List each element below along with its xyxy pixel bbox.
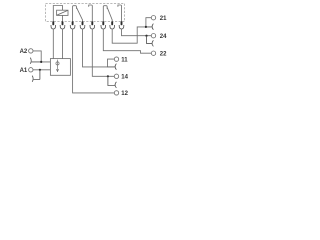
svg-text:A2: A2 bbox=[20, 49, 28, 55]
junction A2 bbox=[40, 61, 42, 63]
plug pin P8 bbox=[121, 21, 123, 25]
plug pin P2 bbox=[62, 21, 64, 25]
socket S5 bbox=[90, 25, 95, 29]
socket S4 bbox=[80, 25, 85, 29]
terminal A2 circle bbox=[29, 49, 33, 53]
svg-text:A1: A1 bbox=[20, 68, 28, 74]
wire pin5 to terminal 14 bbox=[92, 29, 114, 76]
plug pin P1 bbox=[52, 21, 54, 25]
contact K2 NO leg pin8 bbox=[118, 5, 122, 22]
LED polarity symbol U1 bbox=[56, 60, 59, 72]
svg-text:11: 11 bbox=[121, 57, 128, 63]
contact K1 NC leg pin3 bbox=[73, 6, 77, 22]
junction 24 bbox=[145, 35, 147, 37]
svg-text:12: 12 bbox=[121, 91, 128, 97]
contact K2 NC leg pin6 bbox=[103, 6, 107, 22]
socket S2 bbox=[60, 25, 65, 29]
wire A2 to box bbox=[33, 51, 51, 62]
bracket 21 second clamp bbox=[146, 24, 154, 30]
plug pin P4 bbox=[82, 21, 84, 25]
bracket A1 second clamp bbox=[32, 70, 40, 82]
wire pin2 to input box bbox=[62, 29, 64, 59]
plug pin P7 bbox=[111, 21, 113, 25]
socket S8 bbox=[119, 25, 124, 29]
wire pin7 to terminal 21 bbox=[112, 18, 151, 44]
wire pin1 to input box bbox=[52, 29, 54, 59]
bracket A2 second clamp bbox=[30, 58, 41, 64]
wire pin4 to terminal 11 bbox=[83, 29, 115, 67]
bracket 11 second clamp bbox=[108, 64, 117, 70]
junction 14 bbox=[107, 75, 109, 77]
plug pin P6 bbox=[102, 21, 104, 25]
terminal 22 circle bbox=[151, 51, 155, 55]
relay unit dashed box bbox=[46, 3, 125, 21]
junction A1 bbox=[39, 69, 41, 71]
terminal 24 circle bbox=[151, 34, 155, 38]
plug pin P3 bbox=[72, 21, 74, 25]
plug pin P5 bbox=[91, 21, 93, 25]
socket S7 bbox=[110, 25, 115, 29]
wire pin3 to terminal 12 bbox=[73, 29, 115, 93]
junction 21 bbox=[145, 26, 147, 28]
wire coil feed from pin1 bbox=[53, 6, 62, 22]
input module box bbox=[50, 59, 70, 76]
bracket 14 second clamp bbox=[108, 76, 117, 88]
contact K1 pole stub pin4 bbox=[82, 20, 84, 22]
terminal 21 circle bbox=[151, 16, 155, 20]
terminal 14 circle bbox=[114, 74, 118, 78]
socket S3 bbox=[70, 25, 75, 29]
svg-text:14: 14 bbox=[121, 75, 128, 81]
wire coil to pin2 bbox=[62, 15, 64, 21]
svg-text:21: 21 bbox=[160, 16, 167, 22]
socket S1 bbox=[51, 25, 56, 29]
contact K1 NO leg pin5 bbox=[89, 5, 93, 22]
wire pin8 to terminal 24 bbox=[122, 29, 152, 36]
wire pin6 to terminal 22 bbox=[103, 29, 151, 53]
bracket 24 second clamp bbox=[147, 36, 154, 47]
socket S6 bbox=[101, 25, 106, 29]
coil K (rect with diagonal) bbox=[57, 10, 68, 15]
contact K2 blade bbox=[107, 8, 112, 20]
contact K2 pole stub pin7 bbox=[111, 20, 113, 22]
svg-text:22: 22 bbox=[160, 52, 167, 58]
terminal A1 circle bbox=[29, 68, 33, 72]
terminal 11 circle bbox=[114, 57, 118, 61]
svg-text:24: 24 bbox=[160, 34, 167, 40]
terminal 12 circle bbox=[114, 91, 118, 95]
contact K1 blade bbox=[77, 8, 83, 20]
wire A1 to box bbox=[33, 69, 51, 71]
